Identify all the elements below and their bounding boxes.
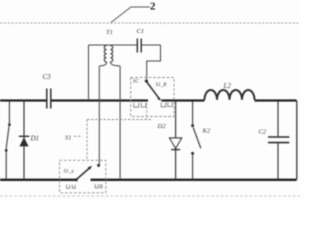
svg-text:D1: D1 xyxy=(30,135,40,143)
svg-text:S1_R: S1_R xyxy=(156,82,168,88)
svg-text:L2: L2 xyxy=(223,82,232,90)
svg-text:C2: C2 xyxy=(259,129,267,136)
svg-text:S1_a: S1_a xyxy=(64,169,75,175)
svg-text:SC: SC xyxy=(133,79,140,85)
svg-text:D2: D2 xyxy=(157,123,167,130)
svg-text:C1: C1 xyxy=(137,28,145,35)
svg-text:T1: T1 xyxy=(106,29,113,36)
svg-text:S1: S1 xyxy=(65,135,72,142)
svg-text:2: 2 xyxy=(150,1,156,13)
svg-text:K2: K2 xyxy=(202,128,211,135)
svg-text:C3: C3 xyxy=(43,73,52,81)
